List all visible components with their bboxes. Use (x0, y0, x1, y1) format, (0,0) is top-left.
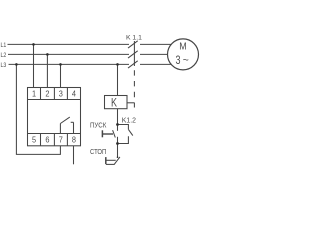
svg-text:7: 7 (59, 135, 63, 145)
svg-text:L1: L1 (1, 42, 7, 49)
svg-text:3: 3 (59, 89, 63, 99)
svg-text:~: ~ (183, 55, 189, 67)
svg-text:K1.2: K1.2 (122, 117, 136, 124)
svg-text:K 1.1: K 1.1 (126, 34, 142, 41)
svg-text:1: 1 (32, 89, 36, 99)
svg-text:СТОП: СТОП (90, 149, 106, 156)
svg-text:4: 4 (72, 89, 76, 99)
svg-text:8: 8 (72, 135, 76, 145)
svg-text:L2: L2 (1, 52, 7, 59)
svg-text:2: 2 (45, 89, 49, 99)
svg-text:ПУСК: ПУСК (90, 123, 106, 130)
svg-text:K: K (111, 96, 117, 110)
svg-text:L3: L3 (1, 62, 7, 69)
svg-text:6: 6 (45, 135, 49, 145)
svg-text:5: 5 (32, 135, 36, 145)
svg-text:3: 3 (176, 53, 181, 67)
svg-text:M: M (179, 41, 186, 52)
